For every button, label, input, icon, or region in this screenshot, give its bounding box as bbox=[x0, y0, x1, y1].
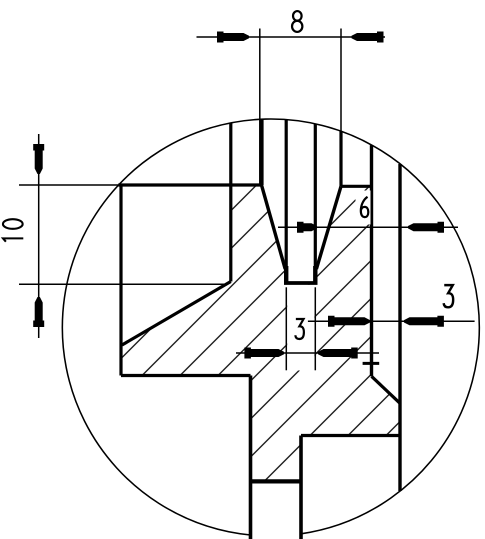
dimension 8: right extension line bbox=[340, 29, 342, 132]
slot left wall lower thick part bbox=[284, 266, 288, 283]
short tick edge near chamfer bbox=[363, 362, 380, 365]
dimension 3 slot: right arrow bbox=[318, 348, 358, 359]
top surface left segment bbox=[118, 183, 261, 186]
dimension 6: text box bbox=[356, 191, 371, 225]
dimension 3 slot: right extension line bbox=[314, 287, 316, 370]
dimension 10: text bbox=[3, 238, 23, 241]
dimension 6: dimension line bbox=[278, 226, 458, 228]
bottom edge y=435.5 bbox=[301, 434, 400, 437]
inner slot wall line x=315 bbox=[314, 124, 317, 283]
dimension 6: right arrow bbox=[408, 222, 444, 233]
dimension 3 slot: left extension line bbox=[285, 287, 287, 370]
foot left wall x=250.5 bbox=[249, 376, 253, 539]
recess inclined bottom edge bbox=[122, 282, 231, 346]
dimension 3 right: dimension line bbox=[308, 320, 475, 322]
detail view boundary circle (broken at bottom where part extends) bbox=[62, 119, 479, 535]
dimension 8: text bbox=[292, 11, 302, 32]
dimension 3 right: left arrow bbox=[328, 316, 370, 327]
dimension 10: top arrow (points down) bbox=[33, 144, 44, 174]
right wall vertical x=371.5 bbox=[370, 145, 373, 376]
dimension 6: text bbox=[361, 197, 368, 217]
dimension 8: left extension line bbox=[259, 29, 261, 186]
chamfer edge bbox=[372, 376, 401, 403]
edge above surface x=341 bbox=[339, 131, 342, 186]
recess right wall vertical x=231 bbox=[229, 123, 232, 282]
outer right vertical x=400 bbox=[398, 164, 401, 491]
inner slot wall line x=286 bbox=[285, 120, 288, 283]
slot bottom bbox=[284, 281, 318, 285]
dimension 10: bottom extension line bbox=[19, 283, 226, 285]
edge above surface x=262 bbox=[260, 119, 263, 185]
V-groove left flank bbox=[262, 185, 286, 269]
dimension 3 slot: left arrow bbox=[244, 348, 284, 359]
V-groove right flank bbox=[316, 186, 341, 269]
dimension 3 slot: dimension line bbox=[236, 352, 379, 354]
dimension 8: left arrow bbox=[217, 32, 249, 43]
dimension 8: right arrow bbox=[352, 32, 384, 43]
dimension 6: left arrow bbox=[297, 222, 317, 233]
slot right wall lower thick part bbox=[313, 266, 317, 283]
dimension 3 right: text bbox=[444, 285, 454, 307]
top surface right segment bbox=[341, 185, 372, 188]
dimension 10: top extension line bbox=[19, 184, 118, 186]
dimension 10: dimension line bbox=[38, 134, 40, 338]
dimension 3 right: right arrow bbox=[404, 316, 444, 327]
left wall of part bbox=[119, 185, 122, 376]
bottom step horizontal y=375.5 bbox=[121, 374, 251, 377]
dimension 3 slot: text bbox=[295, 319, 304, 339]
foot right wall x=301 bbox=[299, 436, 303, 539]
dimension 10: bottom arrow (points up) bbox=[33, 297, 44, 327]
foot bottom bar y=481.4 bbox=[251, 479, 302, 483]
dimension 8: dimension line bbox=[197, 36, 386, 38]
